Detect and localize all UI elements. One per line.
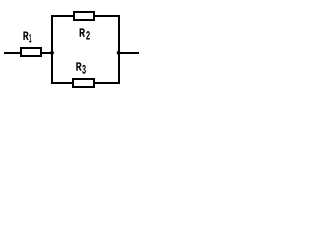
label R2 — [80, 28, 90, 39]
wire: bottom branch horizontal (through R3) — [51, 82, 120, 84]
node A: junction dot left — [50, 51, 54, 55]
resistor R3 — [73, 79, 94, 87]
R3 glyph R — [76, 62, 81, 70]
label R1 — [23, 31, 31, 42]
R1 glyph R — [23, 31, 28, 39]
wire: left vertical bus (node A column) — [51, 15, 53, 84]
node B: junction dot right — [117, 51, 121, 55]
label R3 — [76, 62, 86, 73]
resistor R1 — [21, 48, 41, 56]
resistor R2 — [74, 12, 94, 20]
R3 glyph 3 — [82, 65, 86, 74]
wire: R1 right lead to node A — [42, 52, 51, 54]
wire: entry lead from left edge to R1 — [4, 52, 20, 54]
R1 glyph 1 — [29, 34, 31, 42]
wire: exit lead from node B to right — [120, 52, 139, 54]
wire: right vertical bus (node B column) — [118, 15, 120, 84]
wire: top branch horizontal (through R2) — [51, 15, 120, 17]
R2 glyph 2 — [86, 31, 90, 39]
R2 glyph R — [80, 28, 86, 36]
